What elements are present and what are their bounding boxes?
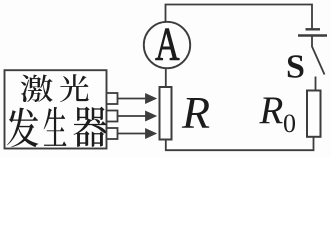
laser generator text <box>7 74 106 147</box>
switch S blade <box>312 47 325 75</box>
label char 生 <box>44 107 67 146</box>
wire bottom: R bottom to R0 bottom <box>166 137 314 150</box>
label char 器 <box>74 107 107 147</box>
ammeter A1 circle <box>144 22 190 68</box>
laser output port square 3 <box>107 128 118 139</box>
laser output port square 1 <box>107 93 118 104</box>
wire: switch lower contact to R0 <box>315 77 317 91</box>
laser output port square 2 <box>107 111 118 122</box>
battery long plate <box>298 34 327 36</box>
label char 激 <box>21 75 53 102</box>
laser generator box <box>5 70 107 148</box>
laser beam arrow 1 <box>118 94 156 102</box>
battery short plate <box>306 28 321 30</box>
label char 发 <box>7 108 38 148</box>
laser beam arrow 2 <box>118 112 156 120</box>
svg-text:A: A <box>155 18 180 70</box>
wire: ammeter bottom to resistor R <box>165 68 167 87</box>
wire top: ammeter top to battery <box>166 5 313 29</box>
resistor R0 <box>307 91 321 137</box>
svg-text:R: R <box>259 89 284 132</box>
wire: battery to switch pivot <box>311 37 313 48</box>
label char 光 <box>60 74 89 102</box>
svg-text:R: R <box>181 87 210 138</box>
photoresistor R <box>160 87 172 140</box>
svg-text:S: S <box>286 49 305 86</box>
laser beam arrow 3 <box>118 129 156 137</box>
svg-text:0: 0 <box>283 109 296 138</box>
